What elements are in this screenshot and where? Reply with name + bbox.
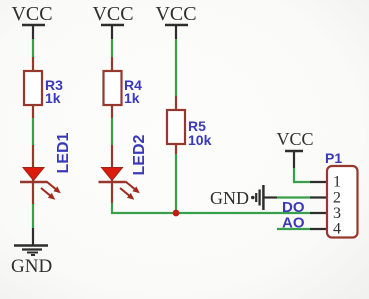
svg-text:DO: DO [282, 199, 305, 216]
svg-text:1k: 1k [124, 90, 140, 106]
svg-text:GND: GND [210, 188, 249, 208]
svg-text:GND: GND [11, 256, 52, 277]
svg-text:VCC: VCC [92, 3, 133, 25]
svg-text:2: 2 [333, 190, 341, 207]
svg-text:LED1: LED1 [55, 133, 72, 174]
svg-text:3: 3 [333, 205, 341, 222]
svg-text:VCC: VCC [276, 129, 313, 149]
svg-text:VCC: VCC [11, 3, 52, 25]
svg-text:4: 4 [333, 221, 341, 238]
svg-text:1k: 1k [45, 90, 61, 106]
svg-text:1: 1 [333, 174, 341, 191]
svg-text:VCC: VCC [155, 3, 196, 25]
svg-text:LED2: LED2 [131, 135, 148, 176]
svg-text:P1: P1 [325, 150, 342, 166]
svg-text:10k: 10k [188, 132, 212, 148]
